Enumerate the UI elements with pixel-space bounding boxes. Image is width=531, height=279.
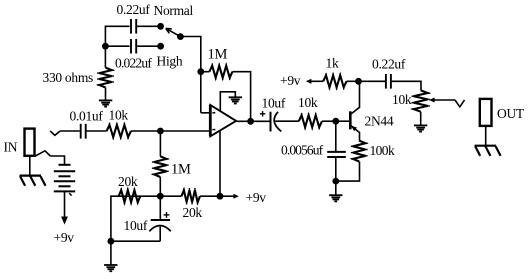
wire to op-amp + input bbox=[131, 130, 210, 132]
node caps left join bbox=[102, 43, 109, 50]
IN jack sleeve stem bbox=[29, 156, 31, 175]
pot wiper arrow bbox=[429, 98, 435, 103]
resistor 10k input bbox=[107, 125, 131, 137]
squiggle pot output bbox=[455, 100, 465, 107]
wire to collector node bbox=[347, 80, 359, 82]
OUT jack bbox=[480, 99, 492, 126]
svg-text:IN: IN bbox=[4, 140, 18, 155]
ground op-amp bbox=[229, 96, 242, 98]
ground 330 bbox=[99, 99, 112, 101]
svg-text:100k: 100k bbox=[370, 143, 395, 158]
potentiometer 10k bbox=[414, 90, 428, 111]
capacitor 0.22uf top bbox=[130, 19, 132, 34]
IN jack bbox=[25, 129, 35, 156]
svg-text:10k: 10k bbox=[298, 95, 318, 110]
switch SW1 pole bbox=[177, 33, 184, 40]
resistor 1M vertical bbox=[154, 156, 166, 177]
wire to battery bbox=[50, 156, 64, 165]
resistor 20k left bbox=[119, 195, 157, 197]
node collector bbox=[355, 78, 362, 85]
node output bbox=[247, 118, 254, 125]
ground bias bbox=[104, 264, 117, 266]
wire to ground bbox=[105, 88, 107, 101]
node bias bbox=[157, 193, 164, 200]
svg-text:Normal: Normal bbox=[154, 3, 194, 18]
resistor 100k bbox=[353, 141, 365, 162]
resistor 1M feedback bbox=[201, 71, 210, 73]
wire main node down to 1M bbox=[159, 131, 161, 156]
svg-text:20k: 20k bbox=[118, 174, 138, 189]
wire pot to ground bbox=[420, 112, 422, 126]
transistor Q1 2N44 base bar bbox=[349, 111, 352, 129]
wire bbox=[87, 130, 107, 132]
svg-text:2N44: 2N44 bbox=[365, 114, 394, 129]
svg-text:0.01uf: 0.01uf bbox=[70, 109, 104, 124]
svg-text:10uf: 10uf bbox=[124, 218, 148, 233]
svg-text:OUT: OUT bbox=[497, 106, 525, 121]
arrow to +9v bbox=[220, 195, 234, 197]
switch arm with arrow bbox=[166, 28, 181, 36]
svg-text:+9v: +9v bbox=[246, 190, 267, 205]
capacitor 0.01uf bbox=[80, 124, 82, 139]
wire to 10k bbox=[275, 120, 299, 122]
op-amp top pin to ground bbox=[220, 92, 235, 111]
capacitor 10uf bias bbox=[159, 196, 161, 220]
wire to pot bbox=[392, 81, 421, 90]
wire switch pole to feedback node bbox=[183, 37, 201, 113]
wire inverting input bbox=[201, 112, 210, 114]
capacitor 10uf polarized bbox=[270, 112, 272, 132]
wire bbox=[137, 25, 158, 27]
node base bbox=[332, 118, 339, 125]
ground pot bbox=[414, 124, 427, 126]
wire lower cap branch bbox=[105, 45, 129, 47]
svg-text:+9v: +9v bbox=[54, 230, 75, 245]
node feedback bbox=[197, 68, 204, 75]
squiggle jack to battery bbox=[35, 151, 50, 156]
wire 100k to bottom node bbox=[336, 162, 360, 182]
wire 20k left leg bbox=[111, 196, 119, 241]
svg-text:10k: 10k bbox=[109, 108, 129, 123]
OUT jack stem bbox=[485, 126, 487, 145]
svg-text:+9v: +9v bbox=[280, 73, 301, 88]
wire battery minus arrow down bbox=[64, 191, 66, 217]
op-amp bottom pin wire bbox=[219, 131, 221, 196]
wire to ground bbox=[335, 181, 337, 195]
chassis ground IN bbox=[20, 175, 42, 177]
op-amp U1 bbox=[210, 105, 236, 136]
svg-text:0.22uf: 0.22uf bbox=[372, 57, 406, 72]
wire output bbox=[236, 120, 251, 122]
wire to ground bbox=[110, 241, 112, 265]
svg-text:0.0056uf: 0.0056uf bbox=[281, 142, 324, 157]
node High throw bbox=[157, 43, 164, 50]
wire to base node bbox=[322, 120, 336, 122]
wire bbox=[137, 45, 158, 47]
svg-text:330 ohms: 330 ohms bbox=[43, 70, 94, 85]
wire bottom bbox=[111, 240, 160, 242]
node Normal throw bbox=[157, 23, 164, 30]
resistor 10k base bbox=[299, 115, 322, 127]
svg-text:1M: 1M bbox=[171, 161, 191, 177]
capacitor 0.22uf out bbox=[385, 74, 387, 89]
node emitter bottom bbox=[332, 178, 339, 185]
node +9v bias bbox=[217, 193, 224, 200]
chassis ground OUT bbox=[475, 145, 497, 147]
emitter lead with arrow bbox=[351, 126, 359, 141]
node main input bbox=[157, 128, 164, 135]
collector lead bbox=[351, 81, 359, 113]
wire feedback to output bbox=[232, 72, 250, 119]
capacitor 0.022uf bbox=[130, 39, 132, 54]
wire squiggle from IN jack tip bbox=[50, 131, 60, 135]
svg-text:20k: 20k bbox=[183, 205, 203, 220]
node bottom left bbox=[108, 238, 115, 245]
svg-text:High: High bbox=[157, 54, 183, 69]
wire base bbox=[336, 120, 349, 122]
svg-text:10uf: 10uf bbox=[262, 95, 286, 110]
resistor 330 ohms bbox=[99, 68, 111, 88]
ground emitter bbox=[329, 194, 342, 196]
resistor 20k right bbox=[160, 195, 181, 197]
battery B1 bbox=[59, 164, 71, 166]
resistor 1k bbox=[323, 75, 346, 87]
svg-text:1M: 1M bbox=[208, 46, 228, 62]
wire to 0.22uf bbox=[359, 80, 386, 82]
svg-text:1k: 1k bbox=[326, 56, 339, 71]
wire to 0.01uf bbox=[60, 130, 80, 132]
capacitor 0.0056uf bbox=[335, 121, 337, 152]
svg-text:10k: 10k bbox=[392, 92, 412, 107]
wire left cap-bank riser bbox=[105, 26, 129, 67]
svg-text:0.022uf: 0.022uf bbox=[115, 56, 152, 71]
svg-text:0.22uf: 0.22uf bbox=[117, 2, 151, 17]
